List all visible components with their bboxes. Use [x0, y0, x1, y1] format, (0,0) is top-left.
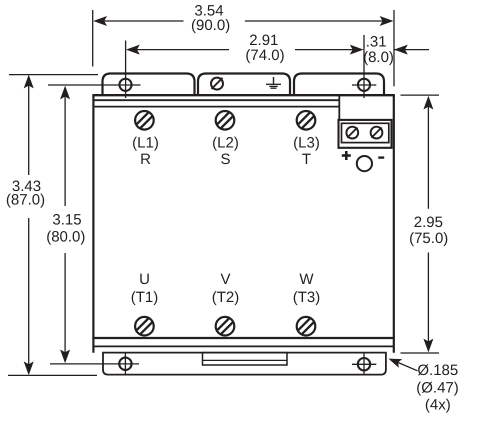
leader to mounting hole callout: [396, 362, 418, 371]
mounting hole bottom-right: [358, 358, 370, 370]
control screw -: [371, 127, 383, 139]
centerline through bottom-left hole (3.15 bottom extension): [50, 363, 139, 365]
svg-text:T: T: [302, 151, 311, 168]
vertical centerline / .31 extension through top-right hole: [363, 35, 365, 98]
control screw +: [346, 127, 358, 139]
LED indicator circle: [357, 156, 372, 171]
dimension line 3.43: [28, 80, 30, 175]
dimension 2.95 extension top: [401, 94, 440, 96]
minus sign: [378, 156, 384, 158]
svg-text:(L1): (L1): [132, 134, 159, 151]
svg-text:(T3): (T3): [293, 289, 321, 306]
dimension 3.54 (90.0) extension line left: [92, 10, 94, 67]
dimension 3.54 (90.0) extension line right: [393, 10, 395, 86]
svg-text:(90.0): (90.0): [191, 17, 230, 34]
svg-text:(8.0): (8.0): [363, 49, 394, 66]
control block left edge: [338, 95, 340, 120]
plus sign: [342, 151, 351, 160]
svg-text:(4x): (4x): [425, 396, 451, 413]
dimension 2.95 extension bottom: [401, 352, 440, 354]
mounting tab top-right: [294, 74, 384, 97]
svg-text:3.15: 3.15: [52, 212, 81, 229]
body top band line 3: [94, 106, 339, 108]
ground symbol: [273, 77, 275, 84]
terminal screw V: [216, 317, 235, 336]
mounting hole top-left: [119, 79, 131, 91]
svg-text:(Ø.47): (Ø.47): [416, 379, 459, 396]
terminal screw L2: [216, 111, 235, 130]
vertical centerline through top-left hole (2.91 extension): [125, 41, 127, 99]
svg-text:(T2): (T2): [212, 289, 240, 306]
svg-text:U: U: [139, 271, 150, 288]
dimension .31 outside arrow: [394, 49, 429, 51]
svg-text:Ø.185: Ø.185: [417, 362, 458, 379]
screw in top-middle tab: [211, 78, 223, 90]
mounting tab top-middle: [198, 74, 290, 97]
dimension line 2.95: [427, 101, 429, 209]
svg-text:S: S: [220, 151, 230, 168]
control terminal block inner: [342, 123, 389, 142]
svg-text:(L3): (L3): [293, 134, 320, 151]
dimension 3.43 extension bottom: [8, 374, 97, 376]
mounting tab top-left: [103, 74, 195, 97]
svg-text:(80.0): (80.0): [46, 229, 85, 246]
terminal screw U: [135, 317, 154, 336]
svg-text:(T1): (T1): [131, 289, 159, 306]
centerline through top-right hole: [352, 84, 376, 86]
svg-text:(75.0): (75.0): [409, 230, 448, 247]
svg-text:V: V: [220, 271, 230, 288]
svg-text:2.95: 2.95: [414, 214, 443, 231]
terminal screw L1: [135, 111, 154, 130]
body top edge: [92, 94, 394, 96]
body top band line 2: [94, 99, 339, 101]
body bottom edge: [92, 337, 394, 339]
body bottom band line: [94, 345, 395, 347]
svg-text:R: R: [140, 151, 151, 168]
DIN rail recess in flange: [203, 353, 288, 365]
dimension line 3.15: [64, 91, 66, 206]
dimension 3.43 extension top: [9, 74, 98, 76]
terminal screw L3: [297, 111, 316, 130]
svg-text:W: W: [299, 271, 314, 288]
bottom mounting flange: [103, 353, 386, 375]
mounting hole top-right: [358, 79, 370, 91]
terminal screw W: [297, 317, 316, 336]
dimension line 3.54: [96, 20, 184, 22]
svg-text:(74.0): (74.0): [245, 47, 284, 64]
svg-text:(L2): (L2): [212, 134, 239, 151]
control terminal block outer: [339, 120, 392, 148]
body left edge: [92, 95, 94, 353]
body right edge: [393, 95, 395, 353]
centerline through top-left hole (3.15 top extension): [48, 84, 141, 86]
dimension line 2.91: [129, 49, 229, 51]
mounting hole bottom-left: [119, 358, 131, 370]
svg-text:(87.0): (87.0): [6, 192, 45, 209]
